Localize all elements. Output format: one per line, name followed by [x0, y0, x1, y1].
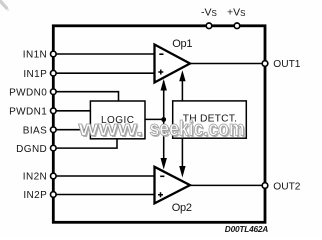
TH DETCT block — [173, 101, 247, 138]
wire DGND to LOGIC bottom — [54, 139, 117, 149]
wire IN2N to Op2 inverting input — [54, 175, 155, 177]
svg-text:PWDN0: PWDN0 — [9, 87, 47, 98]
IC outline box — [53, 26, 265, 223]
svg-text:www.: www. — [77, 117, 143, 140]
svg-text:DGND: DGND — [16, 144, 47, 155]
wire BIAS to LOGIC left — [54, 129, 91, 131]
watermark www.seekic.com — [77, 117, 246, 141]
svg-text:-VS: -VS — [201, 7, 217, 19]
wire IN1P to Op1 non-inverting input — [54, 72, 155, 74]
pin OUT1 terminal — [262, 61, 268, 67]
wire PWDN1 to LOGIC left — [54, 110, 91, 112]
svg-text:BIAS: BIAS — [23, 125, 47, 136]
wire IN1N to Op1 inverting input — [54, 53, 155, 55]
arrowhead up into Op1 — [161, 79, 167, 91]
pin OUT2 terminal — [262, 183, 268, 189]
svg-text:Op2: Op2 — [172, 202, 192, 214]
wire IN2P to Op2 non-inverting input — [54, 194, 155, 196]
Op2 minus sign — [160, 175, 164, 177]
svg-text:seekic.com: seekic.com — [150, 117, 245, 140]
wire control line A vertical (LOGIC node to Op1 and Op2) — [163, 81, 165, 164]
arrowhead down into Op2 — [161, 158, 167, 170]
Op1 minus sign — [159, 53, 163, 55]
pin IN2N terminal — [51, 173, 57, 179]
LOGIC block — [90, 101, 145, 139]
pin PWDN0 terminal — [51, 89, 57, 95]
wire Op1 output to OUT1 — [189, 63, 265, 65]
svg-text:IN1N: IN1N — [23, 50, 47, 61]
svg-text:OUT1: OUT1 — [273, 59, 301, 70]
pin -Vs terminal — [206, 23, 212, 29]
svg-text:D00TL462A: D00TL462A — [225, 224, 268, 234]
op-amp Op1 — [155, 45, 191, 83]
pin IN1P terminal — [51, 70, 57, 76]
svg-text:IN1P: IN1P — [23, 69, 47, 80]
pin DGND terminal — [51, 145, 57, 151]
wire LOGIC output to node — [145, 118, 164, 120]
svg-text:PWDN1: PWDN1 — [9, 107, 47, 118]
arrowhead down into Op2 — [179, 166, 185, 178]
svg-text:IN2P: IN2P — [23, 190, 47, 201]
svg-text:OUT2: OUT2 — [273, 181, 301, 192]
scan artifact smudge top-left — [0, 1, 6, 8]
wire control line B upper (TH DETCT to Op1) — [181, 73, 183, 101]
wire control line B lower (TH DETCT to Op2) — [181, 138, 183, 170]
junction node dot — [161, 117, 166, 122]
wire PWDN0 to LOGIC top — [54, 92, 119, 102]
pin IN1N terminal — [51, 51, 57, 57]
Op1 plus sign — [158, 70, 163, 75]
pin BIAS terminal — [51, 127, 57, 133]
wire Op2 output to OUT2 — [189, 184, 265, 186]
op-amp Op2 — [155, 167, 191, 204]
arrowhead up into Op1 output region — [179, 70, 185, 81]
svg-text:+VS: +VS — [227, 7, 245, 19]
svg-text:Op1: Op1 — [172, 38, 192, 50]
pin +Vs terminal — [234, 23, 240, 29]
svg-text:IN2N: IN2N — [23, 172, 47, 183]
pin IN2P terminal — [51, 192, 57, 198]
pin PWDN1 terminal — [51, 108, 57, 114]
Op2 plus sign — [158, 192, 163, 197]
